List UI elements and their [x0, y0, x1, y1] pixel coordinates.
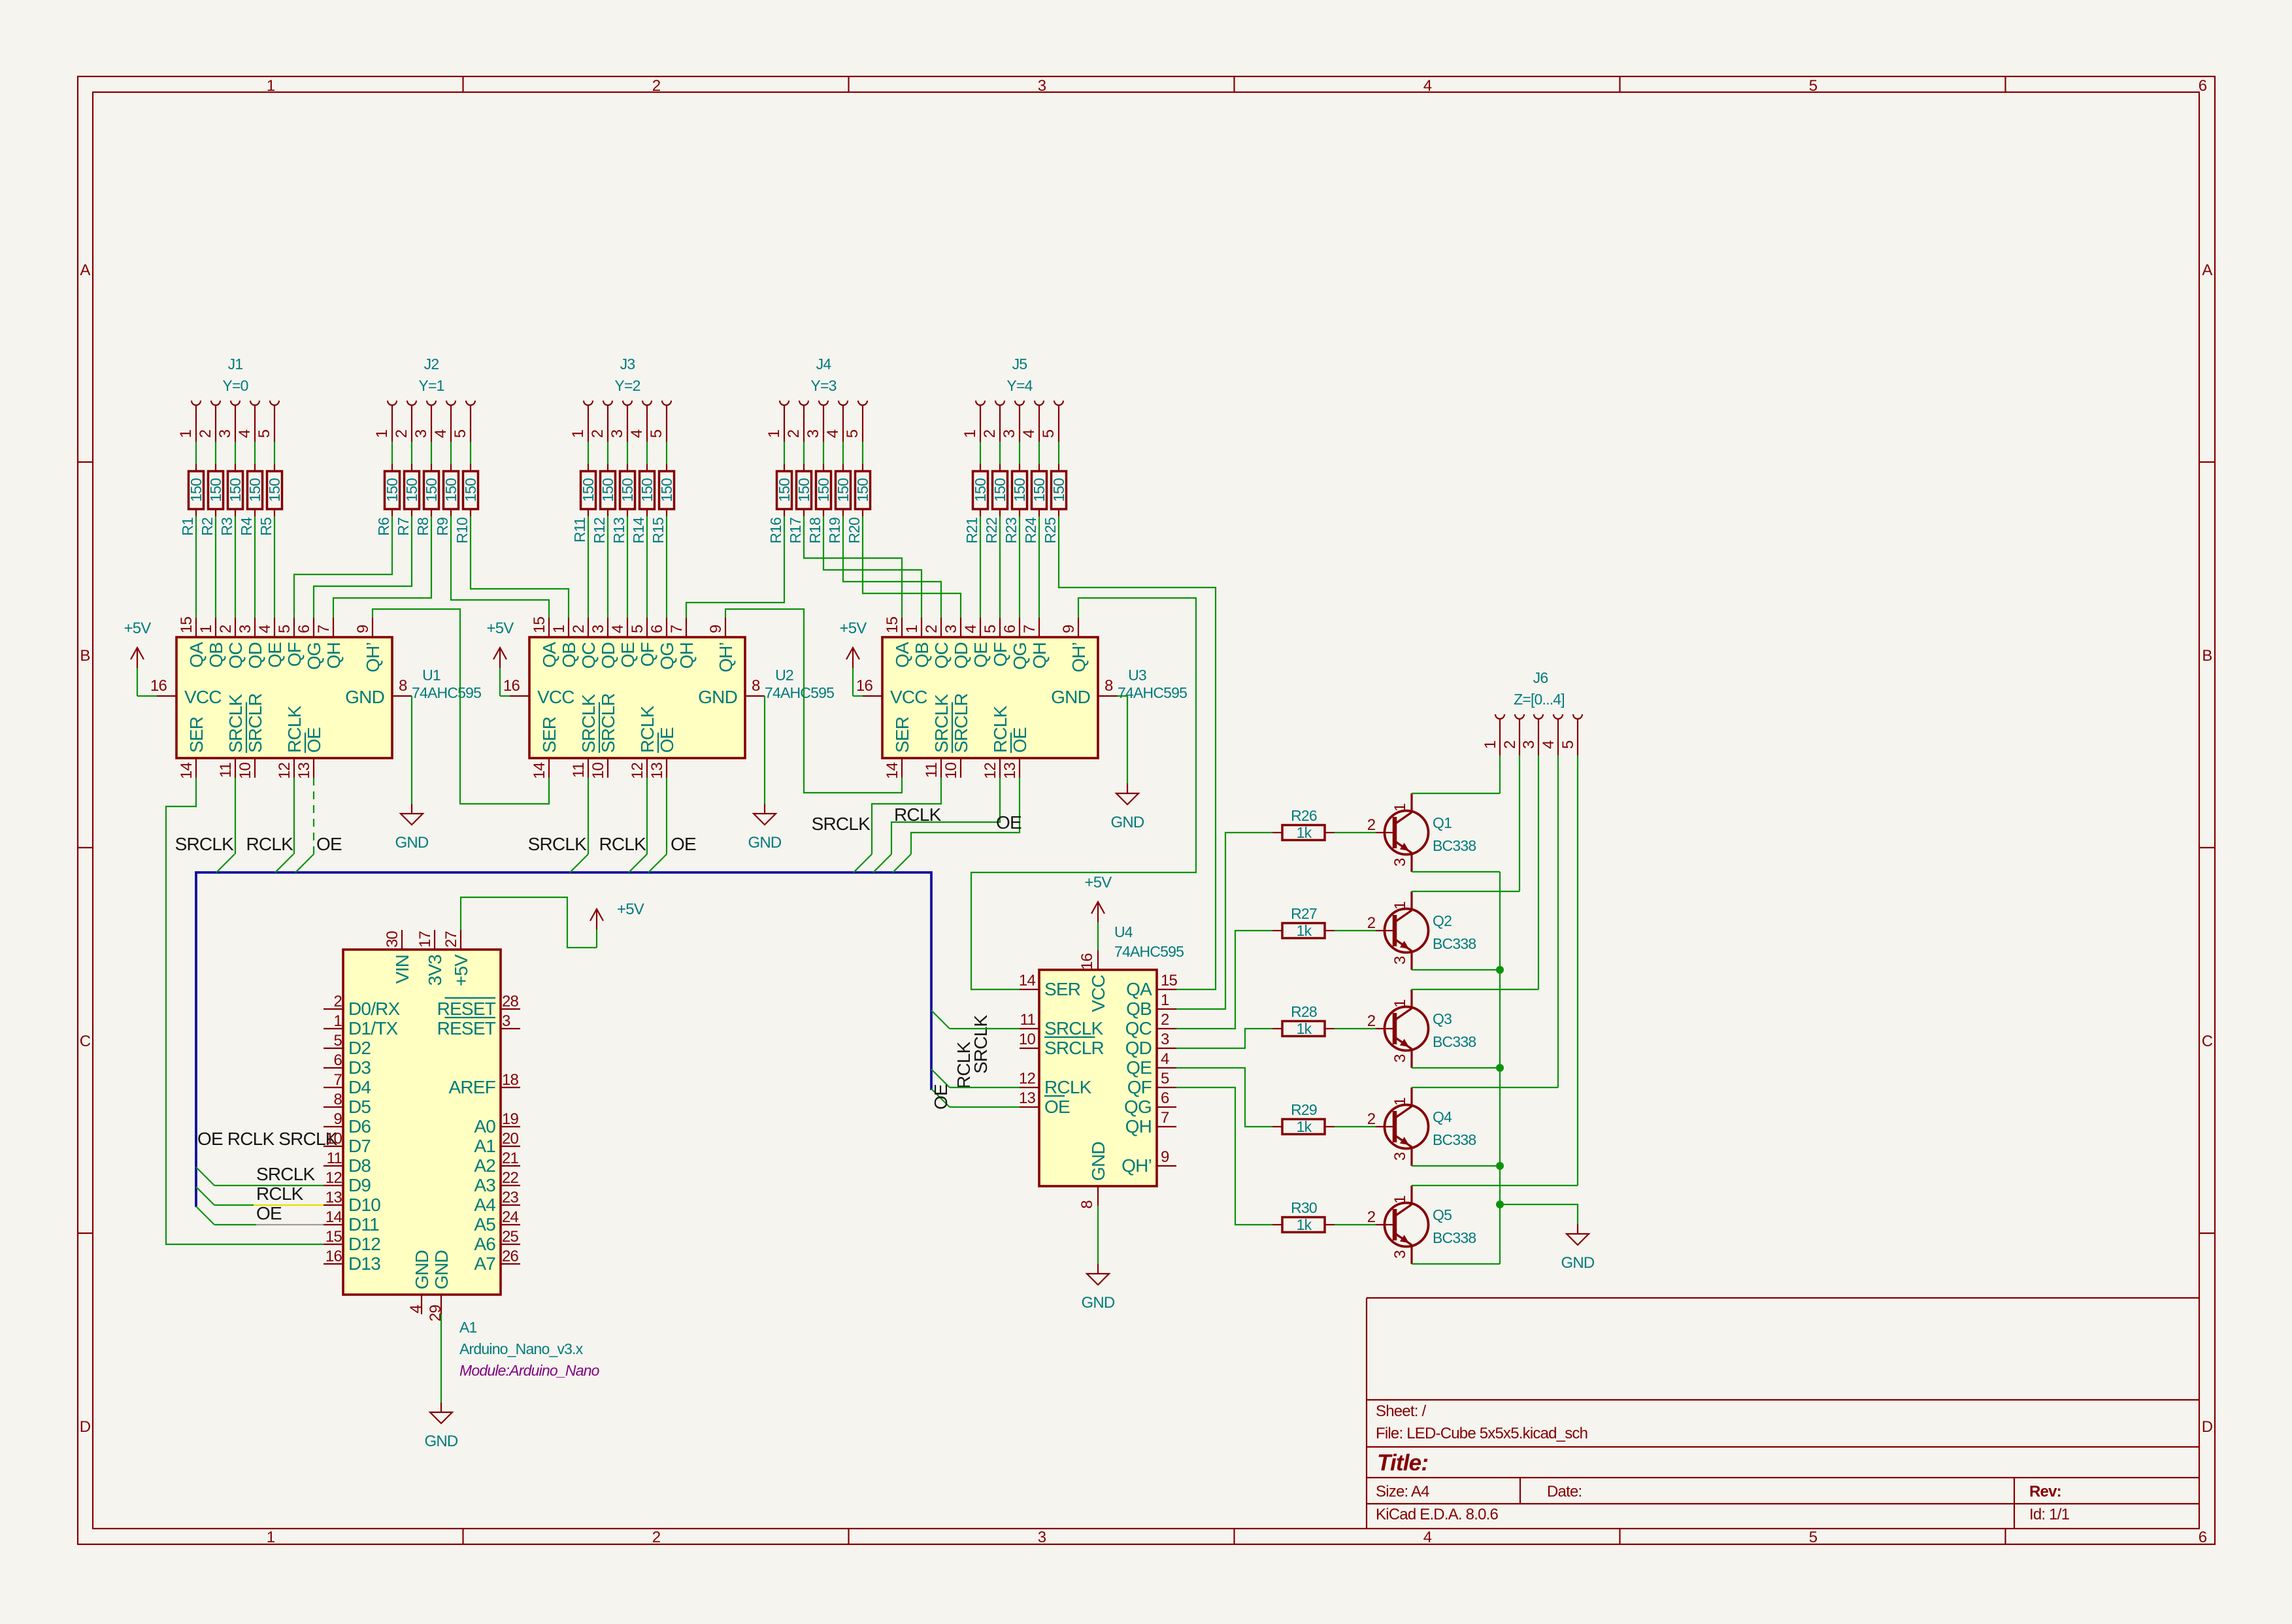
svg-text:Arduino_Nano_v3.x: Arduino_Nano_v3.x [459, 1340, 584, 1357]
svg-text:SRCLK: SRCLK [256, 1164, 315, 1184]
svg-text:Date:: Date: [1547, 1483, 1582, 1500]
svg-text:QG: QG [304, 642, 324, 670]
svg-text:GND: GND [1051, 687, 1090, 707]
svg-text:1: 1 [197, 625, 215, 633]
svg-text:150: 150 [1031, 478, 1048, 502]
svg-text:File: LED-Cube 5x5x5.kicad_sch: File: LED-Cube 5x5x5.kicad_sch [1376, 1425, 1587, 1442]
svg-text:SER: SER [1044, 979, 1080, 999]
svg-text:5: 5 [982, 625, 999, 633]
svg-text:KiCad E.D.A. 8.0.6: KiCad E.D.A. 8.0.6 [1376, 1506, 1498, 1523]
svg-text:VIN: VIN [392, 955, 412, 984]
svg-text:R29: R29 [1291, 1101, 1317, 1118]
svg-text:3: 3 [1391, 1152, 1409, 1161]
svg-text:3: 3 [216, 429, 234, 438]
svg-text:4: 4 [1540, 740, 1557, 749]
svg-text:QF: QF [637, 642, 657, 667]
svg-text:27: 27 [442, 931, 460, 948]
svg-text:15: 15 [884, 616, 901, 633]
svg-text:4: 4 [1423, 77, 1432, 95]
svg-text:R24: R24 [1022, 517, 1039, 544]
svg-text:6: 6 [295, 625, 313, 633]
svg-text:QD: QD [245, 642, 265, 669]
svg-text:7: 7 [315, 625, 333, 633]
svg-text:QA: QA [892, 642, 912, 668]
svg-text:22: 22 [502, 1169, 519, 1187]
svg-text:2: 2 [785, 429, 803, 438]
svg-text:3: 3 [1038, 77, 1046, 95]
svg-text:4: 4 [256, 625, 274, 633]
svg-text:150: 150 [599, 478, 616, 502]
svg-text:D10: D10 [348, 1195, 380, 1215]
svg-text:R16: R16 [767, 518, 784, 544]
svg-text:RCLK: RCLK [990, 705, 1010, 753]
svg-text:1k: 1k [1297, 1118, 1312, 1135]
svg-text:74AHC595: 74AHC595 [1114, 943, 1184, 960]
svg-text:Title:: Title: [1377, 1450, 1428, 1476]
svg-text:2: 2 [197, 429, 214, 438]
svg-text:OE: OE [256, 1203, 282, 1223]
svg-text:14: 14 [884, 763, 901, 780]
svg-text:BC338: BC338 [1433, 837, 1476, 854]
svg-text:D4: D4 [348, 1077, 371, 1097]
svg-text:Size: A4: Size: A4 [1376, 1483, 1429, 1500]
svg-text:QE: QE [618, 642, 638, 668]
svg-text:R28: R28 [1291, 1003, 1317, 1020]
svg-text:R18: R18 [806, 518, 823, 544]
svg-text:SRCLK: SRCLK [578, 694, 599, 753]
svg-text:QB: QB [559, 642, 579, 668]
svg-text:13: 13 [1001, 763, 1019, 780]
svg-text:D13: D13 [348, 1253, 380, 1274]
svg-text:QH: QH [1125, 1116, 1152, 1136]
svg-text:Sheet: /: Sheet: / [1376, 1402, 1426, 1420]
svg-text:R30: R30 [1291, 1199, 1317, 1216]
svg-text:GND: GND [698, 687, 737, 707]
svg-text:150: 150 [403, 478, 420, 502]
svg-text:GND: GND [1088, 1142, 1108, 1181]
svg-text:AREF: AREF [449, 1077, 495, 1097]
svg-text:R6: R6 [375, 518, 392, 536]
svg-text:+5V: +5V [124, 620, 152, 637]
svg-text:150: 150 [854, 478, 871, 502]
svg-text:2: 2 [1367, 1012, 1376, 1030]
svg-text:J3: J3 [620, 356, 635, 373]
svg-text:3V3: 3V3 [425, 955, 445, 986]
svg-text:3: 3 [1038, 1529, 1046, 1546]
svg-text:C: C [2202, 1033, 2213, 1050]
svg-text:QH’: QH’ [1121, 1155, 1152, 1176]
svg-text:1: 1 [1161, 991, 1169, 1009]
svg-text:9: 9 [707, 625, 725, 633]
svg-text:U1: U1 [422, 667, 440, 684]
svg-text:SRCLK: SRCLK [528, 834, 587, 854]
svg-text:1: 1 [373, 429, 391, 438]
svg-text:24: 24 [502, 1208, 519, 1226]
svg-text:BC338: BC338 [1433, 1229, 1476, 1246]
svg-text:4: 4 [1423, 1529, 1432, 1546]
svg-text:1: 1 [961, 429, 979, 438]
svg-text:R9: R9 [434, 518, 451, 536]
svg-text:SRCLK: SRCLK [225, 694, 246, 753]
svg-text:SRCLK: SRCLK [931, 694, 952, 753]
svg-text:3: 3 [608, 429, 626, 438]
svg-text:150: 150 [246, 478, 263, 502]
svg-text:U3: U3 [1128, 667, 1146, 684]
svg-text:12: 12 [982, 763, 999, 780]
svg-text:16: 16 [325, 1248, 342, 1265]
svg-text:150: 150 [1011, 478, 1028, 502]
svg-text:VCC: VCC [537, 687, 574, 707]
svg-text:QH’: QH’ [716, 642, 736, 672]
svg-text:OE: OE [671, 834, 696, 854]
svg-text:A0: A0 [474, 1116, 495, 1136]
svg-text:R10: R10 [454, 518, 471, 544]
svg-text:150: 150 [658, 478, 675, 502]
svg-text:R19: R19 [826, 518, 843, 544]
svg-text:19: 19 [502, 1110, 519, 1128]
svg-text:1k: 1k [1297, 824, 1312, 841]
svg-text:Q4: Q4 [1433, 1108, 1452, 1125]
svg-text:4: 4 [628, 429, 646, 438]
svg-text:5: 5 [1809, 1529, 1818, 1546]
svg-text:A1: A1 [459, 1319, 477, 1336]
svg-text:A: A [80, 261, 90, 279]
svg-text:J1: J1 [228, 356, 243, 373]
svg-text:6: 6 [2199, 77, 2207, 95]
svg-text:D2: D2 [348, 1038, 371, 1058]
svg-text:1k: 1k [1297, 1216, 1312, 1233]
svg-text:C: C [80, 1033, 91, 1050]
svg-text:2: 2 [1367, 1208, 1376, 1226]
svg-text:9: 9 [354, 625, 372, 633]
svg-text:4: 4 [432, 429, 450, 438]
svg-text:SRCLK: SRCLK [812, 814, 871, 834]
svg-text:OE: OE [931, 1084, 951, 1110]
svg-text:8: 8 [399, 677, 407, 695]
svg-text:1: 1 [903, 625, 921, 633]
svg-text:QE: QE [971, 642, 991, 668]
svg-text:2: 2 [981, 429, 999, 438]
svg-text:10: 10 [1019, 1031, 1036, 1048]
svg-text:13: 13 [325, 1189, 342, 1206]
svg-text:5: 5 [1559, 740, 1577, 749]
svg-text:RCLK: RCLK [637, 705, 657, 753]
svg-text:8: 8 [1078, 1201, 1096, 1209]
svg-text:OE: OE [1044, 1097, 1070, 1117]
svg-text:5: 5 [452, 429, 469, 438]
svg-text:18: 18 [502, 1071, 519, 1089]
svg-text:QG: QG [1010, 642, 1030, 670]
svg-text:R8: R8 [414, 518, 431, 536]
svg-text:Q3: Q3 [1433, 1010, 1452, 1027]
svg-text:VCC: VCC [890, 687, 927, 707]
svg-text:R3: R3 [218, 518, 235, 536]
svg-text:R23: R23 [1003, 518, 1020, 544]
svg-text:GND: GND [1111, 814, 1144, 831]
svg-text:2: 2 [1367, 816, 1376, 834]
svg-text:Q2: Q2 [1433, 912, 1452, 929]
svg-text:4: 4 [824, 429, 842, 438]
svg-text:Y=3: Y=3 [810, 377, 836, 394]
svg-text:3: 3 [1520, 740, 1538, 749]
svg-text:QD: QD [951, 642, 971, 669]
svg-text:8: 8 [752, 677, 760, 695]
svg-text:4: 4 [1020, 429, 1038, 438]
svg-text:Y=1: Y=1 [418, 377, 444, 394]
svg-text:3: 3 [1391, 1250, 1409, 1259]
svg-text:13: 13 [648, 763, 666, 780]
svg-text:150: 150 [991, 478, 1008, 502]
svg-text:5: 5 [333, 1032, 342, 1050]
svg-text:D7: D7 [348, 1136, 371, 1156]
svg-text:14: 14 [531, 763, 548, 780]
svg-text:150: 150 [1050, 478, 1067, 502]
svg-text:OE: OE [657, 727, 677, 753]
svg-text:13: 13 [295, 763, 313, 780]
svg-text:QC: QC [931, 642, 952, 669]
svg-text:+5V: +5V [617, 901, 644, 918]
svg-text:4: 4 [407, 1305, 425, 1314]
svg-text:QA: QA [1126, 979, 1152, 999]
svg-text:3: 3 [237, 625, 254, 633]
svg-text:GND: GND [1561, 1254, 1595, 1272]
svg-text:7: 7 [333, 1071, 342, 1089]
svg-text:7: 7 [668, 625, 686, 633]
svg-text:1: 1 [1391, 1195, 1409, 1204]
svg-text:5: 5 [1809, 77, 1818, 95]
svg-text:Module:Arduino_Nano: Module:Arduino_Nano [459, 1362, 600, 1379]
svg-text:R27: R27 [1291, 905, 1317, 922]
svg-text:11: 11 [217, 763, 235, 778]
svg-text:B: B [2202, 647, 2212, 665]
svg-text:D3: D3 [348, 1057, 371, 1078]
svg-text:R15: R15 [650, 518, 667, 544]
svg-text:11: 11 [570, 763, 588, 778]
svg-text:16: 16 [1078, 953, 1096, 970]
svg-text:RCLK: RCLK [284, 705, 305, 753]
svg-text:2: 2 [652, 77, 661, 95]
svg-text:150: 150 [423, 478, 440, 502]
svg-text:3: 3 [805, 429, 822, 438]
svg-text:2: 2 [923, 625, 940, 633]
svg-text:U4: U4 [1114, 923, 1133, 940]
svg-text:QH’: QH’ [1069, 642, 1089, 672]
svg-text:16: 16 [503, 677, 520, 695]
svg-text:11: 11 [923, 763, 940, 778]
svg-text:1k: 1k [1297, 1020, 1312, 1037]
svg-text:RESET: RESET [437, 999, 496, 1019]
svg-text:D5: D5 [348, 1097, 371, 1117]
svg-text:+5V: +5V [1085, 874, 1112, 891]
svg-text:SRCLR: SRCLR [1044, 1038, 1104, 1058]
svg-text:3: 3 [1001, 429, 1018, 438]
svg-text:150: 150 [619, 478, 636, 502]
svg-text:1: 1 [177, 429, 195, 438]
svg-text:RCLK: RCLK [1044, 1077, 1092, 1097]
svg-text:R13: R13 [610, 518, 627, 544]
svg-text:5: 5 [844, 429, 861, 438]
svg-text:QC: QC [578, 642, 599, 669]
svg-text:15: 15 [531, 616, 548, 633]
svg-text:QA: QA [539, 642, 559, 668]
svg-text:10: 10 [237, 763, 254, 780]
svg-text:GND: GND [431, 1250, 452, 1289]
svg-text:2: 2 [217, 625, 235, 633]
svg-text:R11: R11 [571, 518, 588, 542]
svg-text:3: 3 [1391, 1054, 1409, 1063]
svg-text:R14: R14 [630, 517, 647, 544]
svg-text:3: 3 [1161, 1031, 1169, 1048]
svg-text:150: 150 [188, 478, 205, 502]
svg-text:QB: QB [206, 642, 226, 668]
svg-text:28: 28 [502, 993, 519, 1010]
svg-text:QF: QF [990, 642, 1010, 667]
svg-text:+5V: +5V [451, 954, 471, 986]
svg-text:5: 5 [1040, 429, 1057, 438]
svg-text:R5: R5 [257, 518, 274, 536]
svg-text:13: 13 [1019, 1089, 1036, 1107]
svg-text:150: 150 [639, 478, 656, 502]
svg-text:RESET: RESET [437, 1018, 496, 1038]
svg-text:12: 12 [325, 1169, 342, 1187]
svg-text:QG: QG [657, 642, 677, 670]
svg-text:1: 1 [569, 429, 587, 438]
svg-text:2: 2 [570, 625, 588, 633]
svg-text:RCLK: RCLK [599, 834, 647, 854]
svg-text:VCC: VCC [184, 687, 222, 707]
svg-text:15: 15 [178, 616, 195, 633]
svg-text:J4: J4 [816, 356, 832, 373]
svg-text:3: 3 [942, 625, 960, 633]
svg-text:1: 1 [1482, 740, 1499, 749]
svg-text:OE: OE [304, 727, 324, 753]
svg-text:150: 150 [462, 478, 479, 502]
svg-text:2: 2 [1367, 1110, 1376, 1128]
svg-text:R12: R12 [591, 518, 608, 544]
svg-text:A: A [2202, 261, 2212, 279]
svg-text:+5V: +5V [840, 620, 867, 637]
svg-text:A4: A4 [474, 1195, 495, 1215]
svg-text:5: 5 [1161, 1070, 1169, 1087]
svg-text:QD: QD [1125, 1038, 1152, 1058]
svg-text:QH: QH [676, 642, 697, 669]
svg-text:SER: SER [539, 717, 559, 753]
svg-text:OE: OE [316, 834, 342, 854]
svg-text:J5: J5 [1012, 356, 1027, 373]
svg-text:GND: GND [1082, 1294, 1115, 1312]
svg-text:74AHC595: 74AHC595 [765, 684, 834, 701]
svg-text:150: 150 [795, 478, 812, 502]
svg-text:SRCLK: SRCLK [1044, 1018, 1103, 1038]
svg-text:14: 14 [325, 1208, 342, 1226]
svg-text:8: 8 [333, 1091, 342, 1108]
svg-text:1k: 1k [1297, 922, 1312, 939]
svg-text:RCLK: RCLK [894, 804, 942, 825]
svg-text:6: 6 [1161, 1089, 1169, 1107]
svg-text:D1/TX: D1/TX [348, 1018, 398, 1038]
svg-text:3: 3 [1391, 956, 1409, 965]
svg-text:14: 14 [1019, 972, 1036, 989]
svg-text:1: 1 [1391, 1097, 1409, 1106]
svg-text:Z=[0...4]: Z=[0...4] [1514, 691, 1565, 708]
svg-text:1: 1 [333, 1012, 342, 1030]
svg-text:4: 4 [962, 625, 980, 633]
svg-text:QE: QE [265, 642, 285, 668]
svg-text:OE: OE [1010, 727, 1030, 753]
svg-text:6: 6 [648, 625, 666, 633]
svg-text:150: 150 [227, 478, 244, 502]
svg-text:1: 1 [550, 625, 568, 633]
svg-text:QB: QB [912, 642, 932, 668]
svg-text:SRCLR: SRCLR [951, 693, 971, 753]
svg-text:R21: R21 [963, 518, 980, 544]
svg-text:Y=2: Y=2 [614, 377, 640, 394]
svg-text:Rev:: Rev: [2029, 1483, 2061, 1500]
svg-text:23: 23 [502, 1189, 519, 1206]
svg-text:+5V: +5V [487, 620, 514, 637]
svg-text:10: 10 [590, 763, 607, 780]
svg-text:J6: J6 [1533, 669, 1548, 686]
svg-text:1: 1 [765, 429, 783, 438]
svg-text:SER: SER [186, 717, 207, 753]
svg-text:150: 150 [442, 478, 459, 502]
svg-text:7: 7 [1021, 625, 1038, 633]
svg-text:3: 3 [590, 625, 607, 633]
svg-text:9: 9 [1060, 625, 1078, 633]
svg-text:25: 25 [502, 1228, 519, 1246]
svg-text:SRCLR: SRCLR [245, 693, 265, 753]
svg-text:QB: QB [1126, 999, 1152, 1019]
svg-text:Q1: Q1 [1433, 814, 1452, 831]
svg-text:11: 11 [1020, 1011, 1036, 1029]
svg-text:11: 11 [327, 1150, 342, 1167]
svg-text:21: 21 [502, 1150, 519, 1167]
svg-text:R1: R1 [179, 518, 196, 536]
svg-text:R4: R4 [238, 517, 255, 536]
svg-text:15: 15 [325, 1228, 342, 1246]
svg-text:BC338: BC338 [1433, 1131, 1476, 1148]
svg-text:OE RCLK SRCLK: OE RCLK SRCLK [197, 1129, 338, 1149]
svg-text:20: 20 [502, 1130, 519, 1148]
svg-text:6: 6 [2199, 1529, 2207, 1546]
svg-text:1: 1 [1391, 803, 1409, 812]
svg-text:5: 5 [256, 429, 273, 438]
svg-text:8: 8 [1104, 677, 1113, 695]
svg-text:150: 150 [207, 478, 224, 502]
svg-text:D0/RX: D0/RX [348, 999, 401, 1019]
svg-text:RCLK: RCLK [954, 1041, 974, 1089]
svg-text:10: 10 [325, 1130, 342, 1148]
svg-text:Id: 1/1: Id: 1/1 [2029, 1506, 2070, 1523]
svg-text:QH: QH [324, 642, 344, 669]
svg-text:Q5: Q5 [1433, 1206, 1452, 1223]
svg-text:QA: QA [186, 642, 207, 668]
svg-text:SER: SER [892, 717, 912, 753]
svg-text:QH: QH [1029, 642, 1050, 669]
svg-text:150: 150 [776, 478, 793, 502]
svg-text:R2: R2 [199, 518, 216, 536]
svg-text:R7: R7 [395, 518, 412, 536]
svg-text:2: 2 [589, 429, 606, 438]
svg-text:5: 5 [629, 625, 646, 633]
svg-text:D: D [2202, 1418, 2213, 1436]
svg-text:QF: QF [1127, 1077, 1152, 1097]
svg-text:3: 3 [412, 429, 430, 438]
svg-text:R22: R22 [983, 518, 1000, 544]
svg-text:15: 15 [1161, 972, 1178, 989]
svg-text:QC: QC [1125, 1018, 1152, 1038]
svg-text:12: 12 [629, 763, 646, 780]
